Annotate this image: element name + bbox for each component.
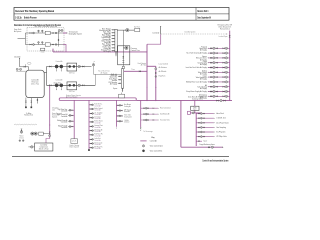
svg-text:Fog Horn: Fog Horn bbox=[159, 76, 166, 78]
stbd branch wire: O.D.M.E. Unit bbox=[196, 117, 213, 119]
manifold 1 branch arrow: Main Engine Control Air bbox=[110, 35, 113, 36]
svg-text:Drain: Drain bbox=[41, 51, 45, 53]
trunk B takeoff wire bbox=[147, 65, 156, 67]
dryer train 1 prefilter bbox=[33, 32, 35, 34]
stbd branch valve 1: Hose Rack bbox=[198, 113, 200, 115]
V2 branch gauge: Stores Crane bbox=[92, 143, 94, 145]
trunk B junction dot bbox=[155, 87, 156, 88]
V4 branch tick: Hose Connection bbox=[153, 108, 154, 109]
deck branch valve 3: Aft Tank Cleaning bbox=[223, 86, 225, 88]
stbd branch valve 1: Gas Sampling bbox=[198, 127, 200, 129]
dryer top gauge bbox=[58, 29, 60, 31]
stbd spare stub wire bbox=[196, 140, 202, 142]
reservoir drain end 1 bbox=[25, 107, 26, 108]
dryer train 1 afterfilter bbox=[55, 32, 57, 34]
manifold 1 branch valve: Sewage Plant Air Supply bbox=[113, 50, 115, 52]
manifold 1 branch valve: Main Engine Control Air bbox=[113, 35, 115, 37]
manifold 2 vessel bbox=[121, 69, 123, 89]
reducer train 2 outlet valve bbox=[82, 84, 84, 86]
deck branch valve 1: No.1 Tank Cleaning bbox=[210, 52, 212, 54]
stbd branch gauge: Gas Sampling bbox=[201, 127, 203, 129]
V3 branch valve 1: Aux Blower Sealing Air bbox=[117, 105, 119, 107]
deck branch gauge: Forward Hose Rack bbox=[213, 47, 215, 49]
svg-text:Line: Line bbox=[52, 109, 55, 111]
dryer train 2 tower gauge A stem bbox=[38, 43, 40, 44]
separator outlet wire bbox=[43, 133, 49, 135]
cargo line gauge bbox=[211, 146, 213, 148]
arrow to deaerator bbox=[67, 32, 68, 33]
manifold 1 top outlet wire bbox=[117, 29, 133, 31]
deck branch gauge: Pump Room Supply bbox=[213, 90, 215, 92]
trunk B strainer bbox=[155, 76, 157, 78]
V1 branch valve: Sludge Pump Air bbox=[72, 120, 74, 122]
V2 branch gauge: Incinerator bbox=[92, 117, 94, 119]
deck level break line bbox=[14, 124, 37, 125]
deck branch gauge 2: Emergency Towing Unit bbox=[225, 95, 227, 97]
pipe to deaerator bbox=[63, 32, 67, 34]
dryer inlet stub wire bbox=[18, 38, 26, 40]
pcv drop wire bbox=[122, 30, 124, 46]
svg-text:Holding Tank: Holding Tank bbox=[24, 115, 33, 117]
V2 branch wire: Incinerator bbox=[89, 117, 94, 119]
deck branch arrow: Pump Room Supply bbox=[207, 91, 210, 92]
manifold 1 branch valve: Aux. Engine Control Air bbox=[113, 44, 115, 46]
reservoir relief valve bbox=[37, 99, 39, 101]
dryer train 2 outlet valve bbox=[52, 44, 54, 46]
V1 branch wire: Sludge Pump Air bbox=[69, 120, 74, 122]
V4 branch tick: Soot Blower Air bbox=[153, 113, 154, 114]
svg-text:Control Air and Instrumentatio: Control Air and Instrumentation System bbox=[202, 160, 228, 163]
deck branch valve 2: Pump Room Supply bbox=[216, 91, 218, 93]
V4 branch valve 2: Viscorator Units bbox=[147, 119, 149, 121]
deck branch valve 2: Emergency Towing Unit bbox=[216, 95, 218, 97]
svg-text:Deck Foam Room: Deck Foam Room bbox=[216, 122, 229, 124]
manifold 2 branch valve: P/V Breaker Air Supply bbox=[119, 83, 121, 85]
manifold 1 drain wire bbox=[115, 52, 117, 56]
key locked shut symbol bbox=[142, 150, 144, 152]
deck branch valve 1: Cargo Tank Gauging bbox=[210, 62, 212, 64]
stbd branch valve 1: O.D.M.E. Unit bbox=[198, 117, 200, 119]
reducer train 2 inlet valve bbox=[49, 84, 51, 86]
V2 branch valve: Incinerator bbox=[90, 117, 92, 119]
manifold 2 drain valve bbox=[122, 89, 124, 91]
manifold 2 outlet pipe bbox=[124, 70, 147, 72]
svg-text:Gas Sampling: Gas Sampling bbox=[216, 127, 226, 129]
trunk B gauge bbox=[155, 68, 157, 70]
stbd branch arrow: ICCP System bbox=[213, 132, 216, 133]
reducer train 1 wire bbox=[47, 66, 92, 68]
reducer train 1 filter 2 bbox=[60, 65, 63, 68]
dryer train 1 tower vessel bbox=[45, 31, 50, 34]
compressor trunk junction dot bbox=[49, 124, 50, 125]
deck manifold feed box bbox=[191, 106, 199, 110]
svg-text:To Scavenge: To Scavenge bbox=[143, 131, 152, 133]
manifold 2 branch arrow: P/V Breaker Air Supply bbox=[117, 83, 120, 84]
deck branch valve 3: Inert Gas Deck Units bbox=[223, 67, 225, 69]
V2 branch wire: E/R Hose Pts bbox=[89, 147, 94, 149]
manifold 2 branch valve: Inert Gas System Air bbox=[119, 76, 121, 78]
V1 branch arrow: Boiler Gauge Bd bbox=[67, 115, 70, 116]
deck branch valve 3: Cargo Valve Hydraulics bbox=[223, 76, 225, 78]
compressor motor bbox=[31, 146, 33, 148]
V1 branch gauge: Bilge Pump Air bbox=[69, 126, 71, 128]
extension valve 2 bbox=[224, 100, 226, 102]
reservoir drain end 2 bbox=[31, 107, 32, 108]
V4 branch wire: Soot Blower Air bbox=[141, 113, 158, 115]
V2 branch valve: I.G. Scrubber bbox=[90, 113, 92, 115]
deck air crossover arrow bbox=[226, 33, 227, 34]
deck branch gauge 2: Ballast Valve Control bbox=[225, 71, 227, 73]
deck branch arrow: Ballast Valve Control bbox=[207, 72, 210, 73]
V3 branch valve 1: M/E Gauge Board Air bbox=[117, 110, 119, 112]
V2 branch gauge: Fuel Oil Visc. bbox=[92, 104, 94, 106]
dryer train 2 tower gauge B stem bbox=[41, 43, 43, 44]
manifold 1 drain valve bbox=[115, 53, 117, 55]
deck branch valve 1: Pump Room Supply bbox=[210, 91, 212, 93]
V2 branch wire: Fwd Hose Pts bbox=[89, 134, 94, 136]
compressor trunk gauge bbox=[49, 135, 51, 137]
junction dot cargo drop bbox=[180, 100, 181, 101]
engine room header bar bbox=[59, 98, 136, 101]
svg-text:Hose Rack: Hose Rack bbox=[216, 113, 224, 115]
V3 branch wire: M/E Gauge Board Air bbox=[116, 110, 122, 112]
manifold 1 vessel bbox=[115, 29, 117, 51]
deck branch wire: Ballast Valve Control bbox=[208, 71, 229, 73]
manifold 1 branch valve: Exh. Valve Spring Air bbox=[113, 32, 115, 34]
separator box bbox=[39, 132, 44, 135]
deck branch wire: Vapour Emission Valves bbox=[208, 57, 229, 59]
stbd branch gauge: O.D.M.E. Unit bbox=[201, 117, 203, 119]
reducer train 2 reducing valve A bbox=[69, 84, 71, 86]
motor gauge b bbox=[22, 140, 24, 142]
dryer bypass riser bbox=[52, 49, 54, 52]
deck branch valve 3: Ballast Valve Control bbox=[223, 71, 225, 73]
reducer train 1 gauge bbox=[78, 65, 80, 67]
svg-text:7 bar: 7 bar bbox=[131, 69, 135, 71]
deck manifold silencer bbox=[188, 111, 191, 114]
V2 branch wire: Stores Crane bbox=[89, 143, 94, 145]
svg-text:Document Title: Machinery Oper: Document Title: Machinery Operating Manu… bbox=[15, 9, 54, 13]
deck branch gauge 2: Cargo Valve Hydraulics bbox=[225, 76, 227, 78]
V4 branch arrow: Viscorator Units bbox=[157, 120, 160, 121]
deck branch gauge: Cargo Valve Hydraulics bbox=[213, 76, 215, 78]
V4 branch arrow: Soot Blower Air bbox=[157, 114, 160, 115]
V3 branch gauge: Oil Mist Detector bbox=[119, 120, 121, 122]
manifold 1 branch wire: Sewage Plant Air Supply bbox=[112, 50, 115, 52]
manifold 1 branch arrow: Boiler Gauge Board Air bbox=[110, 41, 113, 42]
V3 branch gauge: M/E Gauge Board Air bbox=[119, 110, 121, 112]
svg-text:Quick Closing: Quick Closing bbox=[69, 145, 79, 147]
V1 branch wire: Oily Water Sep. bbox=[69, 109, 74, 111]
pcv gauge stub bbox=[123, 47, 125, 49]
V3 branch wire: Aux Blower Sealing Air bbox=[116, 104, 122, 106]
bottom header extension pipe bbox=[136, 100, 232, 102]
air horn feed box bbox=[119, 94, 125, 98]
extension valve 1 bbox=[217, 100, 219, 102]
deck branch valve 2: Aft Tank Cleaning bbox=[216, 86, 218, 88]
svg-text:Dryer: Dryer bbox=[193, 109, 197, 111]
pcv tick 2 bbox=[122, 61, 124, 63]
dryer train 1 inlet valve bbox=[30, 32, 32, 34]
V2 drop pipe bbox=[88, 100, 90, 149]
manifold 1 outlet arrow bbox=[132, 30, 135, 31]
V2 branch valve: Lathe Unit bbox=[90, 139, 92, 141]
manifold 1 branch wire: Exh. Valve Spring Air bbox=[112, 32, 115, 34]
svg-text:Valve Locked Open: Valve Locked Open bbox=[150, 146, 163, 148]
deck branch arrow: Aft Tank Cleaning bbox=[207, 86, 210, 87]
deck air inlet arrow bbox=[19, 58, 20, 59]
deck branch gauge 2: Aft Tank Cleaning bbox=[225, 86, 227, 88]
tank gauge 2 bbox=[20, 68, 22, 70]
deck branch valve 1: Cargo Valve Hydraulics bbox=[210, 76, 212, 78]
reducer train 1 outlet valve bbox=[82, 66, 84, 68]
deck branch gauge 2: Vapour Emission Valves bbox=[225, 57, 227, 59]
deck branch valve 1: Ballast Valve Control bbox=[210, 71, 212, 73]
svg-text:Date: September 06: Date: September 06 bbox=[197, 17, 211, 20]
manifold 1 branch arrow: Sewage Plant Air Supply bbox=[110, 50, 113, 51]
cargo line arrow bbox=[222, 147, 223, 148]
reducer train 2 filter 1 bbox=[55, 84, 58, 87]
deck branch valve 2: Ballast Valve Control bbox=[216, 71, 218, 73]
reducer feed riser bbox=[46, 67, 48, 86]
air dryer dashed enclosure bbox=[27, 28, 64, 51]
compressor trunk elbow bbox=[46, 139, 50, 144]
manifold 2 branch wire: P/V Breaker Air Supply bbox=[118, 82, 121, 84]
V4 drop pipe bbox=[140, 101, 142, 128]
deck branch wire: Midship Hose Crane bbox=[208, 81, 229, 83]
V2 branch wire: Boiler Control bbox=[89, 108, 94, 110]
reducer outlet drop wire bbox=[93, 66, 95, 74]
deck branch gauge: Aft Tank Cleaning bbox=[213, 86, 215, 88]
deck branch valve 2: Vapour Emission Valves bbox=[216, 57, 218, 59]
stbd branch arrow: Gas Sampling bbox=[213, 127, 216, 128]
right trunk isolating valve bbox=[229, 35, 231, 37]
V2 branch gauge: Sewage Plant bbox=[92, 126, 94, 128]
V1 branch wire: Boiler Gauge Bd bbox=[69, 114, 74, 116]
stbd branch arrow: Deck Foam Room bbox=[213, 122, 216, 123]
footer rule bbox=[12, 156, 229, 158]
stbd branch wire: UTI Whip Units bbox=[196, 136, 213, 138]
deck branch wire: Pump Room Supply bbox=[208, 91, 229, 93]
deck branch gauge: Ballast Valve Control bbox=[213, 71, 215, 73]
deck branch arrow: Cargo Tank Gauging bbox=[207, 62, 210, 63]
V1 branch arrow: Oily Water Sep. bbox=[67, 110, 70, 111]
deck air inlet wire bbox=[20, 58, 27, 67]
deck branch gauge 2: Midship Hose Crane bbox=[225, 81, 227, 83]
reducer train 1 filter 1 drain bbox=[56, 68, 58, 71]
V1 branch valve: Oily Water Sep. bbox=[72, 109, 74, 111]
V2 branch valve: Stores Crane bbox=[90, 143, 92, 145]
V3 branch valve 1: Oil Mist Detector bbox=[117, 120, 119, 122]
V2 branch wire: Fuel Oil Visc. bbox=[89, 104, 94, 106]
stbd branch valve 2: Hose Rack bbox=[203, 113, 205, 115]
svg-text:Key: Key bbox=[152, 137, 155, 139]
reducer outlet relief bbox=[92, 64, 94, 66]
pcv gauge bbox=[125, 46, 128, 49]
V2 branch gauge: Workshop Air bbox=[92, 130, 94, 132]
manifold 2 drain wire bbox=[122, 88, 124, 91]
tank gauge 1 bbox=[16, 68, 18, 70]
stbd branch valve 2: ICCP System bbox=[203, 131, 205, 133]
manifold 2 outlet valve bbox=[139, 70, 141, 72]
key locked open symbol bbox=[142, 145, 144, 147]
deck branch valve 2: No.1 Tank Cleaning bbox=[216, 52, 218, 54]
reducer relief vent tick bbox=[94, 60, 95, 63]
deck branch arrow: Inert Gas Deck Units bbox=[207, 67, 210, 68]
reducer train 2 reducing valve B bbox=[73, 84, 75, 86]
V2 branch valve: Boiler Control bbox=[90, 108, 92, 110]
cargo line pipe bbox=[181, 146, 222, 148]
stbd branch valve 2: UTI Whip Units bbox=[203, 136, 205, 138]
deck branch valve 2: Cargo Tank Gauging bbox=[216, 62, 218, 64]
reducer train 1 filter 1 bbox=[55, 65, 58, 68]
manifold 2 branch arrow: Deck Water Seal Air bbox=[117, 79, 120, 80]
V1 branch valve: Boiler Gauge Bd bbox=[72, 115, 74, 117]
V1 branch arrow: Bilge Pump Air bbox=[67, 126, 70, 127]
manifold 1 branch wire: Turbocharger Cleaning Air bbox=[112, 38, 115, 40]
deck air riser arrow bbox=[160, 26, 161, 27]
junction dot trunk A low bbox=[146, 87, 147, 88]
V2 branch gauge: E/R Hose Pts bbox=[92, 147, 94, 149]
deck branch arrow: No.1 Tank Cleaning bbox=[207, 53, 210, 54]
stbd branch wire: Gas Sampling bbox=[196, 126, 213, 128]
V4 branch gauge: Hose Connection bbox=[145, 107, 147, 109]
dryer bottom receiver bbox=[41, 48, 45, 50]
stbd branch wire: Deck Foam Room bbox=[196, 122, 213, 124]
dryer internal riser wire bbox=[58, 31, 60, 47]
stbd branch gauge: ICCP System bbox=[201, 131, 203, 133]
svg-text:Spare: Spare bbox=[203, 141, 207, 143]
dryer inlet manifold wire bbox=[24, 33, 26, 45]
cargo line valve bbox=[208, 146, 210, 148]
key control air sample bbox=[140, 140, 146, 142]
typhon box bbox=[135, 28, 140, 31]
manifold 1 branch arrow: Turbocharger Cleaning Air bbox=[110, 38, 113, 39]
deck branch valve 3: No.1 Tank Cleaning bbox=[223, 52, 225, 54]
V4 bottom arrow bbox=[140, 129, 141, 132]
V3 branch valve 2: Oil Mist Detector bbox=[121, 120, 123, 122]
manifold 1 branch arrow: Main Engine Manoeuvring Air bbox=[110, 29, 113, 30]
reservoir drain valve 2 bbox=[30, 101, 32, 103]
manifold 1 branch wire: Main Engine Control Air bbox=[112, 35, 115, 37]
trunk B bbox=[155, 66, 157, 100]
dryer train 2 prefilter bbox=[33, 44, 35, 46]
svg-text:Q.C.V.: Q.C.V. bbox=[72, 141, 77, 143]
manifold 1 branch valve: Main Engine Manoeuvring Air bbox=[113, 29, 115, 31]
trunk B valve bbox=[155, 72, 157, 74]
V4 branch gauge: Viscorator Units bbox=[145, 119, 147, 121]
stbd branch valve 2: Gas Sampling bbox=[203, 127, 205, 129]
V3 branch valve 2: Stern Tube Seal System bbox=[121, 115, 123, 117]
reservoir relief stem bbox=[36, 98, 38, 103]
manifold 2 branch valve: Deck Water Seal Air bbox=[119, 79, 121, 81]
reducer train 2 filter 1 drain bbox=[56, 87, 58, 90]
reducer train 1 inlet valve bbox=[49, 66, 51, 68]
manifold 2 branch wire: Inert Gas System Air bbox=[118, 75, 121, 77]
deck branch valve 3: Emergency Towing Unit bbox=[223, 95, 225, 97]
deck branch gauge: Midship Hose Crane bbox=[213, 81, 215, 83]
deck branch valve 1: Vapour Emission Valves bbox=[210, 57, 212, 59]
reducer train 2 filter 2 bbox=[60, 84, 63, 87]
pcv internal wire bbox=[122, 46, 124, 67]
deck branch gauge 2: Forward Hose Rack bbox=[225, 47, 227, 49]
deck air relief stub bbox=[25, 64, 27, 66]
aftercooler circle 2 bbox=[34, 132, 37, 135]
manifold 2 branch wire: Deck Water Seal Air bbox=[118, 79, 121, 81]
V2 branch wire: Purifier Room bbox=[89, 121, 94, 123]
deck branch gauge: No.1 Tank Cleaning bbox=[213, 52, 215, 54]
deck branch valve 1: Aft Tank Cleaning bbox=[210, 86, 212, 88]
V1 branch wire: Bilge Pump Air bbox=[69, 126, 74, 128]
V4 branch arrow: Hose Connection bbox=[157, 108, 160, 109]
manifold 1 branch arrow: Aux. Engine Control Air bbox=[110, 44, 113, 45]
manifold 2 feed valve bbox=[112, 73, 114, 75]
deck branch wire: Cargo Valve Hydraulics bbox=[208, 76, 229, 78]
deck branch valve 2: Midship Hose Crane bbox=[216, 81, 218, 83]
stbd branch valve 2: O.D.M.E. Unit bbox=[203, 117, 205, 119]
deck branch wire: Aft Tank Cleaning bbox=[208, 86, 229, 88]
svg-text:Deck Air: Deck Air bbox=[14, 55, 21, 58]
V4 branch valve 1: Hose Connection bbox=[143, 107, 145, 109]
deck branch valve 3: Forward Hose Rack bbox=[223, 47, 225, 49]
deck branch valve 3: Midship Hose Crane bbox=[223, 81, 225, 83]
deck manifold cross wire bbox=[188, 112, 202, 114]
V2 branch wire: Lathe Unit bbox=[89, 138, 94, 140]
manifold 1 branch valve: Turbocharger Cleaning Air bbox=[113, 38, 115, 39]
deck branch wire: Forward Hose Rack bbox=[208, 47, 229, 49]
V2 branch gauge: I.G. Scrubber bbox=[92, 113, 94, 115]
svg-text:Forward Deck: Forward Deck bbox=[220, 28, 230, 30]
V3 branch valve 2: M/E Gauge Board Air bbox=[121, 110, 123, 112]
V1 branch arrow: Sludge Pump Air bbox=[67, 121, 70, 122]
V4 branch wire: Viscorator Units bbox=[141, 119, 158, 121]
control air reservoir bbox=[26, 70, 44, 97]
dryer train 1 tower gauge B stem bbox=[41, 32, 43, 33]
svg-text:M/E Gauge: M/E Gauge bbox=[124, 109, 131, 111]
manifold 2 branch arrow: Inert Gas System Air bbox=[117, 76, 120, 77]
deck branch gauge: Cargo Tank Gauging bbox=[213, 62, 215, 64]
V2 branch valve: Purifier Room bbox=[90, 121, 92, 123]
pcv tick 1 bbox=[122, 60, 124, 62]
manifold 1 branch wire: Aux. Engine Control Air bbox=[112, 44, 115, 46]
svg-text:Reservoir: Reservoir bbox=[32, 82, 39, 84]
manifold 1 branch arrow: Exh. Valve Spring Air bbox=[110, 32, 113, 33]
stbd branch wire: ICCP System bbox=[196, 131, 213, 133]
reducer train 2 station box bbox=[67, 82, 77, 90]
dryer train 2 afterfilter bbox=[55, 44, 57, 46]
right trunk pipe bbox=[229, 31, 231, 101]
stbd branch valve 2: Deck Foam Room bbox=[203, 122, 205, 124]
title block divider vertical bbox=[195, 8, 197, 21]
deck manifold feed drop bbox=[194, 110, 196, 113]
title block frame bbox=[14, 8, 229, 21]
manifold 1 outlet gauge bbox=[126, 29, 129, 32]
dryer train 1 tower gauge A stem bbox=[38, 32, 40, 33]
deck branch gauge 2: Inert Gas Deck Units bbox=[225, 66, 227, 68]
deck branch gauge: Vapour Emission Valves bbox=[213, 57, 215, 59]
reservoir drain stem 2 bbox=[30, 98, 32, 107]
V4 branch wire: Hose Connection bbox=[141, 107, 158, 109]
dryer top gauge 2 bbox=[61, 29, 63, 31]
deck air relief tag oval bbox=[27, 62, 31, 64]
V2 branch valve: Workshop Air bbox=[90, 130, 92, 132]
deck branch arrow: Emergency Towing Unit bbox=[207, 96, 210, 97]
manifold 2 drain arrow bbox=[122, 90, 123, 93]
dryer train 1 tower gauge A bbox=[38, 30, 40, 32]
deck branch valve 3: Cargo Tank Gauging bbox=[223, 62, 225, 64]
stbd branch gauge: Deck Foam Room bbox=[201, 122, 203, 124]
motor unit bbox=[20, 131, 22, 133]
